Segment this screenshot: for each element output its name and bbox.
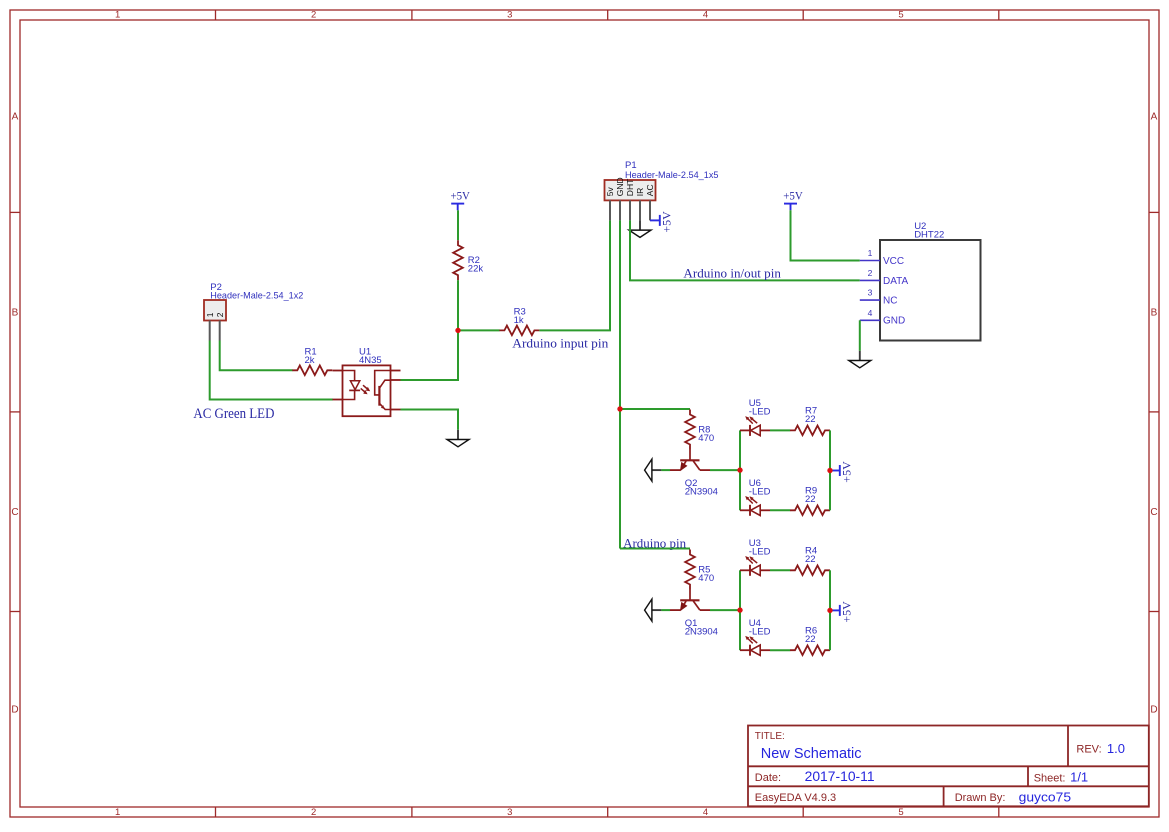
svg-text:470: 470 <box>698 433 714 444</box>
ground under U2 <box>849 351 871 368</box>
svg-text:2k: 2k <box>305 355 315 366</box>
svg-text:4: 4 <box>703 10 708 21</box>
svg-text:4N35: 4N35 <box>359 355 382 366</box>
wire Q1 collector to LED node <box>710 609 740 611</box>
svg-text:A: A <box>12 112 19 123</box>
svg-text:3: 3 <box>507 807 512 818</box>
svg-text:-LED: -LED <box>749 487 771 498</box>
svg-text:4: 4 <box>868 308 873 318</box>
svg-text:22: 22 <box>805 494 816 505</box>
resistor R4 22 <box>790 546 830 576</box>
resistor R5 470 <box>685 550 714 590</box>
wire U5 to R7 <box>770 429 790 431</box>
svg-text:NC: NC <box>883 296 897 307</box>
svg-text:2: 2 <box>311 807 316 818</box>
wire junction to R8 <box>620 408 690 410</box>
IC U2 DHT22 <box>860 221 981 341</box>
svg-text:+5V: +5V <box>450 188 470 202</box>
wire +5V to R2 <box>457 210 459 240</box>
svg-text:AC: AC <box>645 184 655 196</box>
junction Arduino pin to R8 <box>617 406 622 411</box>
svg-text:DHT22: DHT22 <box>914 230 944 241</box>
svg-text:22: 22 <box>805 634 816 645</box>
svg-text:A: A <box>1151 112 1158 123</box>
junction +5V node (lower) <box>827 608 832 613</box>
svg-text:2N3904: 2N3904 <box>685 487 718 498</box>
LED U3 <box>740 538 771 576</box>
svg-text:-LED: -LED <box>749 407 771 418</box>
opto-coupler U1 4N35 <box>333 347 401 417</box>
svg-text:1: 1 <box>205 312 215 317</box>
power flag +5V at P1 pin5 <box>650 211 673 233</box>
header P1 <box>605 160 719 220</box>
wire P1 pin2 down (Arduino pin net) <box>619 220 621 548</box>
wire U4 to R6 <box>770 649 790 651</box>
wire R3 to P1 pin1 <box>539 220 610 330</box>
svg-text:Sheet:: Sheet: <box>1034 773 1066 785</box>
wire U6 to R9 <box>770 509 790 511</box>
svg-text:470: 470 <box>698 573 714 584</box>
svg-text:3: 3 <box>507 10 512 21</box>
title block <box>748 726 1149 807</box>
svg-text:2: 2 <box>215 312 225 317</box>
wire ground to Q2 emitter <box>661 469 670 471</box>
LED U6 <box>740 478 771 516</box>
power flag +5V (lower LED block) <box>830 601 853 623</box>
ground P1 pin4 <box>629 220 651 237</box>
svg-text:3: 3 <box>868 288 873 298</box>
ground at Q2 emitter <box>645 459 662 481</box>
wire ground to Q1 emitter <box>661 609 670 611</box>
svg-text:Arduino input pin: Arduino input pin <box>512 335 609 350</box>
svg-text:D: D <box>1150 705 1157 716</box>
wire node to R3 <box>458 329 500 331</box>
junction Q1 collector node <box>737 607 742 612</box>
svg-text:GND: GND <box>615 177 625 196</box>
wire Q2 collector to LED node <box>710 469 740 471</box>
svg-text:DATA: DATA <box>883 276 909 287</box>
wire U3 to R4 <box>770 569 790 571</box>
svg-text:REV:: REV: <box>1076 744 1101 756</box>
svg-text:New Schematic: New Schematic <box>761 746 862 762</box>
wire P2 pin1 to U1 cathode <box>210 341 333 400</box>
svg-text:4: 4 <box>703 807 708 818</box>
svg-text:D: D <box>11 705 18 716</box>
svg-text:2N3904: 2N3904 <box>685 627 718 638</box>
svg-text:1: 1 <box>115 10 120 21</box>
svg-text:22: 22 <box>805 554 816 565</box>
svg-text:22k: 22k <box>468 264 484 275</box>
transistor Q1 2N3904 <box>670 590 718 638</box>
svg-text:1/1: 1/1 <box>1070 770 1088 785</box>
svg-text:guyco75: guyco75 <box>1019 790 1072 805</box>
svg-text:TITLE:: TITLE: <box>755 731 785 742</box>
svg-text:GND: GND <box>883 316 905 327</box>
junction node R2/R3 <box>455 328 460 333</box>
wire LED block right vertical (lower) <box>829 570 831 650</box>
resistor R9 22 <box>790 486 830 516</box>
svg-text:Drawn By:: Drawn By: <box>955 792 1006 804</box>
svg-text:Date:: Date: <box>755 772 781 784</box>
svg-text:1: 1 <box>115 807 120 818</box>
svg-text:5: 5 <box>898 807 903 818</box>
wire U2 GND to ground <box>859 320 861 351</box>
svg-text:VCC: VCC <box>883 256 904 267</box>
svg-text:1.0: 1.0 <box>1107 741 1125 756</box>
svg-text:2017-10-11: 2017-10-11 <box>805 769 875 784</box>
transistor Q2 2N3904 <box>670 450 718 498</box>
svg-text:2: 2 <box>868 268 873 278</box>
wire LED block right vertical (upper) <box>829 430 831 510</box>
power flag +5V above U2 <box>783 188 803 210</box>
LED U4 <box>740 618 771 656</box>
LED U5 <box>740 398 771 436</box>
svg-text:C: C <box>11 507 18 518</box>
wire U1 emitter to ground <box>401 410 459 430</box>
svg-text:Header-Male-2.54_1x2: Header-Male-2.54_1x2 <box>210 291 303 302</box>
svg-text:-LED: -LED <box>749 627 771 638</box>
wire R2 to node <box>457 280 459 330</box>
svg-text:Header-Male-2.54_1x5: Header-Male-2.54_1x5 <box>625 170 719 181</box>
wire to R5 <box>620 548 690 550</box>
resistor R3 1k <box>499 307 539 336</box>
wire LED block left vertical (lower) <box>739 570 741 650</box>
svg-text:-LED: -LED <box>749 547 771 558</box>
ground near U1 <box>447 430 469 447</box>
svg-text:+5V: +5V <box>839 601 853 623</box>
wire P1 pin3 to U2 DATA <box>630 220 860 280</box>
svg-text:C: C <box>1150 507 1157 518</box>
power flag +5V (upper LED block) <box>830 461 853 483</box>
svg-text:+5V: +5V <box>839 461 853 483</box>
resistor R6 22 <box>790 625 830 655</box>
wire P2 pin2 to R1 <box>220 341 293 371</box>
svg-text:Arduino in/out pin: Arduino in/out pin <box>683 265 781 280</box>
svg-text:22: 22 <box>805 414 816 425</box>
svg-text:EasyEDA V4.9.3: EasyEDA V4.9.3 <box>755 792 836 804</box>
ground at Q1 emitter <box>645 599 662 621</box>
power flag +5V above R2 <box>450 188 470 210</box>
svg-text:DHT: DHT <box>625 179 635 196</box>
resistor R7 22 <box>790 406 830 436</box>
wire LED block left vertical (upper) <box>739 430 741 510</box>
svg-text:B: B <box>12 308 19 319</box>
svg-text:1: 1 <box>868 248 873 258</box>
resistor R2 22k <box>453 240 483 280</box>
junction +5V node (upper) <box>827 468 832 473</box>
resistor R8 470 <box>685 410 714 450</box>
svg-text:+5V: +5V <box>659 211 673 233</box>
svg-text:AC Green LED: AC Green LED <box>193 406 274 422</box>
svg-text:IR: IR <box>635 188 645 197</box>
resistor R1 2k <box>292 347 332 376</box>
svg-text:2: 2 <box>311 10 316 21</box>
svg-text:1k: 1k <box>514 315 524 326</box>
wire +5V to U2 VCC <box>791 210 860 260</box>
header P2 <box>204 282 303 341</box>
svg-text:5v: 5v <box>605 186 615 196</box>
svg-text:5: 5 <box>898 10 903 21</box>
wire U1 collector to node <box>401 330 459 380</box>
svg-text:+5V: +5V <box>783 188 803 202</box>
svg-text:B: B <box>1151 308 1158 319</box>
junction Q2 collector node <box>737 467 742 472</box>
